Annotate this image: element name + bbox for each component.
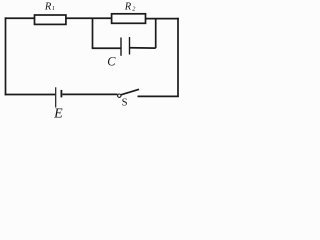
wire: capacitor branch left bbox=[92, 47, 121, 49]
switch S blade bbox=[121, 89, 139, 95]
svg-text:1: 1 bbox=[52, 5, 55, 12]
capacitor C right plate bbox=[129, 37, 131, 55]
wire: top right segment bbox=[146, 18, 179, 20]
svg-text:2: 2 bbox=[132, 5, 135, 12]
node: junction left capacitor stub bbox=[92, 18, 94, 48]
wire: left vertical bbox=[5, 17, 7, 95]
wire: top middle segment bbox=[66, 17, 112, 19]
wire: top left segment bbox=[5, 17, 35, 19]
resistor R2 bbox=[112, 14, 146, 23]
svg-text:R: R bbox=[124, 1, 132, 12]
resistor R1 bbox=[35, 15, 66, 24]
wire: bottom left segment bbox=[5, 94, 55, 96]
wire: switch contact to bottom right corner bbox=[138, 95, 179, 97]
svg-text:E: E bbox=[53, 107, 63, 120]
switch S pivot circle bbox=[118, 94, 121, 97]
wire: right vertical bbox=[177, 18, 179, 97]
capacitor C left plate bbox=[120, 38, 122, 56]
node: junction right capacitor stub bbox=[155, 19, 157, 48]
svg-text:C: C bbox=[107, 54, 116, 68]
svg-text:S: S bbox=[122, 98, 128, 109]
svg-text:R: R bbox=[44, 1, 52, 12]
battery E long plate bbox=[55, 87, 57, 107]
wire: battery to switch bbox=[62, 93, 117, 95]
battery E short plate bbox=[60, 90, 62, 98]
wire: capacitor branch right bbox=[130, 47, 156, 49]
